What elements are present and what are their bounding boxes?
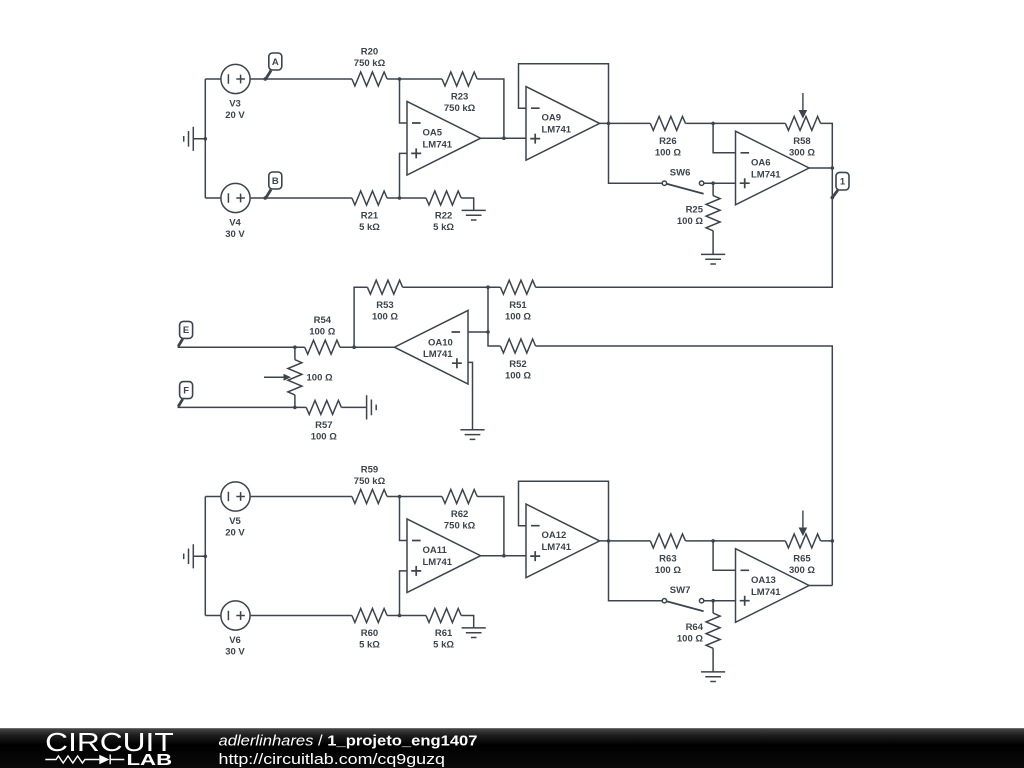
svg-text:100 Ω: 100 Ω xyxy=(505,312,531,323)
svg-text:750 kΩ: 750 kΩ xyxy=(444,521,476,532)
svg-text:OA13: OA13 xyxy=(751,575,776,586)
svg-text:http://circuitlab.com/cq9guzq: http://circuitlab.com/cq9guzq xyxy=(219,751,446,768)
svg-text:100 Ω: 100 Ω xyxy=(655,565,681,576)
svg-text:300 Ω: 300 Ω xyxy=(789,148,815,159)
svg-text:R21: R21 xyxy=(361,211,379,222)
svg-text:5 kΩ: 5 kΩ xyxy=(433,640,454,651)
svg-text:LM741: LM741 xyxy=(542,125,572,136)
svg-text:B: B xyxy=(272,176,279,187)
svg-text:100 Ω: 100 Ω xyxy=(677,216,703,227)
svg-text:100 Ω: 100 Ω xyxy=(311,432,337,443)
svg-text:OA11: OA11 xyxy=(423,545,448,556)
svg-text:F: F xyxy=(183,385,189,396)
svg-text:R52: R52 xyxy=(509,359,526,370)
svg-text:100 Ω: 100 Ω xyxy=(372,312,398,323)
svg-text:5 kΩ: 5 kΩ xyxy=(359,640,380,651)
svg-text:SW6: SW6 xyxy=(670,168,691,179)
svg-text:R65: R65 xyxy=(793,554,811,565)
svg-text:V4: V4 xyxy=(229,218,241,229)
svg-text:R54: R54 xyxy=(314,315,332,326)
svg-text:R25: R25 xyxy=(686,205,704,216)
svg-text:LAB: LAB xyxy=(127,752,173,768)
svg-text:750 kΩ: 750 kΩ xyxy=(444,103,476,114)
svg-text:LM741: LM741 xyxy=(423,557,453,568)
svg-text:LM741: LM741 xyxy=(542,542,572,553)
svg-text:LM741: LM741 xyxy=(751,169,781,180)
svg-text:20 V: 20 V xyxy=(225,110,245,121)
svg-text:A: A xyxy=(272,57,279,68)
svg-text:E: E xyxy=(183,325,189,336)
svg-text:OA9: OA9 xyxy=(542,113,562,124)
svg-text:1: 1 xyxy=(840,177,846,188)
svg-text:R23: R23 xyxy=(451,92,468,103)
svg-text:R62: R62 xyxy=(451,509,468,520)
svg-text:OA12: OA12 xyxy=(542,530,567,541)
svg-text:750 kΩ: 750 kΩ xyxy=(354,476,386,487)
svg-text:20 V: 20 V xyxy=(225,528,245,539)
svg-text:750 kΩ: 750 kΩ xyxy=(354,58,386,69)
svg-text:R26: R26 xyxy=(659,136,676,147)
svg-text:V6: V6 xyxy=(229,635,241,646)
svg-text:V5: V5 xyxy=(229,516,241,527)
svg-text:5 kΩ: 5 kΩ xyxy=(433,222,454,233)
svg-text:100 Ω: 100 Ω xyxy=(655,148,681,159)
svg-text:OA5: OA5 xyxy=(423,128,443,139)
svg-text:LM741: LM741 xyxy=(751,587,781,598)
svg-text:300 Ω: 300 Ω xyxy=(789,565,815,576)
svg-text:SW7: SW7 xyxy=(670,585,691,596)
svg-text:100 Ω: 100 Ω xyxy=(677,634,703,645)
svg-text:R22: R22 xyxy=(435,211,452,222)
svg-text:100 Ω: 100 Ω xyxy=(307,372,333,383)
svg-text:OA10: OA10 xyxy=(428,337,453,348)
svg-text:100 Ω: 100 Ω xyxy=(309,327,335,338)
svg-text:R63: R63 xyxy=(659,554,676,565)
svg-text:LM741: LM741 xyxy=(423,349,453,360)
svg-text:LM741: LM741 xyxy=(423,140,453,151)
svg-text:30 V: 30 V xyxy=(225,229,245,240)
svg-text:100 Ω: 100 Ω xyxy=(505,370,531,381)
svg-text:5 kΩ: 5 kΩ xyxy=(359,222,380,233)
svg-text:R61: R61 xyxy=(435,628,453,639)
svg-text:R60: R60 xyxy=(361,628,378,639)
svg-text:R58: R58 xyxy=(793,136,810,147)
svg-text:R20: R20 xyxy=(361,46,378,57)
svg-text:V3: V3 xyxy=(229,99,241,110)
svg-text:OA6: OA6 xyxy=(751,157,771,168)
svg-text:adlerlinhares / 1_projeto_eng1: adlerlinhares / 1_projeto_eng1407 xyxy=(219,734,478,750)
svg-text:R57: R57 xyxy=(315,420,332,431)
svg-text:R64: R64 xyxy=(686,622,704,633)
svg-text:R51: R51 xyxy=(509,300,527,311)
svg-text:30 V: 30 V xyxy=(225,647,245,658)
svg-text:R53: R53 xyxy=(376,300,393,311)
svg-text:R59: R59 xyxy=(361,464,378,475)
